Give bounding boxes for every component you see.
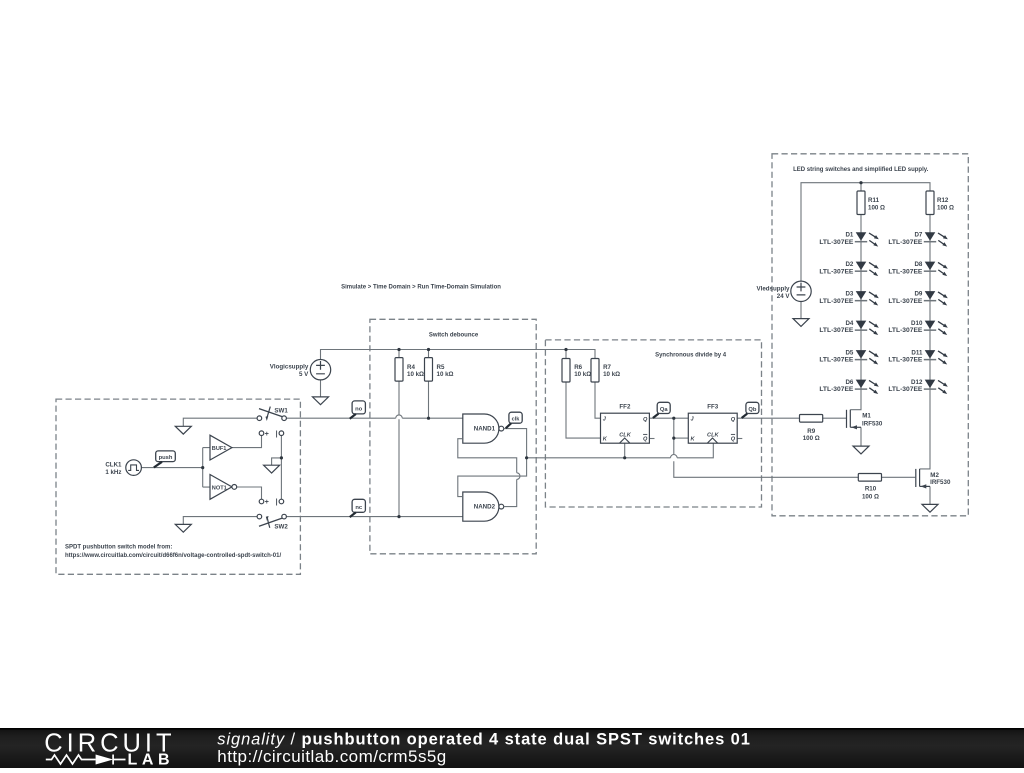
svg-text:Switch debounce: Switch debounce [429,333,479,339]
LED D9 [924,291,948,305]
LED D4 [855,321,879,335]
LED D6 [855,380,879,394]
node dot R4 nc net [397,515,400,518]
LED D5 [855,350,879,364]
wire FF3 Q output to R9 [737,417,799,419]
node dot R5 no net [427,417,430,420]
svg-text:Qa: Qa [660,407,669,413]
flag Qb [742,402,759,418]
wire top +5V rail [321,350,596,360]
node dot FF2 clock [623,456,626,459]
svg-text:LTL-307EE: LTL-307EE [888,298,923,305]
svg-text:10 kΩ: 10 kΩ [603,371,620,378]
svg-text:Synchronous divide by 4: Synchronous divide by 4 [655,353,727,359]
wire CLK1 to buffer inputs [141,448,210,488]
wire SW1 pole terminal rail down to SW2 pole terminal [280,436,282,500]
resistor R10 [858,474,881,482]
svg-text:D2: D2 [845,261,853,268]
wire Vledsupply to ground [800,302,802,319]
wire BUF1 output to SW1 plus terminal [232,436,262,448]
svg-text:no: no [355,406,363,412]
node dot R5 top rail [427,348,430,351]
svg-text:D12: D12 [911,379,923,386]
voltage source Vledsupply [791,281,811,301]
wire FF2 Q output to FF3 J input [649,417,688,419]
svg-text:D7: D7 [914,231,922,238]
SPDT pushbutton model dashed box [56,399,300,574]
switch SW1 control terminals [259,431,284,438]
svg-text:FF3: FF3 [707,404,719,411]
wire R4 bottom down to nc net with hop gap [398,381,400,516]
clock source CLK1 [126,460,142,476]
svg-text:http://circuitlab.com/crm5s5g: http://circuitlab.com/crm5s5g [217,747,446,766]
flip-flop FF2 [601,413,650,443]
wire SW2 left to ground [183,517,257,525]
LED D10 [924,321,948,335]
svg-text:D4: D4 [845,320,853,327]
ground SW2 left [175,524,191,532]
node dot control rail ground tap [280,456,283,459]
svg-text:D10: D10 [911,320,923,327]
wire FF3 K input stub [674,437,689,439]
LED D2 [855,262,879,276]
svg-text:SPDT pushbutton switch model f: SPDT pushbutton switch model from: [65,545,172,551]
switch debounce dashed box [370,319,536,554]
svg-text:5 V: 5 V [299,371,309,378]
LED D1 [855,232,879,246]
wire FF2 clock stub [624,443,626,458]
node dot R6 top rail [564,348,567,351]
ground below M1 [853,446,869,454]
wire LED box top rail [801,183,930,281]
switch SW1 [257,407,288,421]
svg-text:LTL-307EE: LTL-307EE [888,357,923,364]
LED D3 [855,291,879,305]
nand gate NAND1 [463,414,504,443]
svg-text:D5: D5 [845,349,853,356]
flag no [350,401,366,419]
wire NAND2 output up with hop to NAND1 lower input [458,439,520,507]
wire R5 bottom down to no net [428,381,430,418]
wire top rail R6 stub [565,350,567,359]
svg-text:CLK1: CLK1 [105,461,122,468]
resistor R4 [395,358,403,382]
svg-text:+: + [265,499,269,506]
wire R7 bottom to FF2 J input [595,382,601,418]
LED string dashed box [772,154,968,516]
wire M2 source to ground [929,486,931,504]
wire R9 to M1 gate [823,417,846,419]
switch SW2 control terminals [259,499,284,506]
svg-text:100 Ω: 100 Ω [862,493,879,500]
switch SW2 [257,514,288,530]
svg-text:FF2: FF2 [619,404,631,411]
svg-text:LTL-307EE: LTL-307EE [888,327,923,334]
flag Qa [653,402,670,418]
voltage source Vlogicsupply [310,360,330,380]
footer bar [0,728,1024,768]
flag nc [350,499,366,517]
wire control rail to center ground elbow [272,458,282,465]
svg-text:24 V: 24 V [777,293,791,300]
wire FF3 Qbar stub [737,438,742,440]
svg-text:clk: clk [512,417,521,423]
svg-text:Qb: Qb [748,407,757,413]
svg-text:R4: R4 [407,364,415,371]
svg-text:D1: D1 [845,231,853,238]
svg-text:M1: M1 [862,413,871,420]
node dot NAND1 output clk [525,456,528,459]
wire Vlogicsupply to ground [320,380,322,397]
svg-text:push: push [159,455,173,461]
svg-text:LTL-307EE: LTL-307EE [888,386,923,393]
wire clk node down and across to NAND2 upper input [458,458,527,497]
resistor R12 [926,191,934,215]
svg-text:LTL-307EE: LTL-307EE [888,239,923,246]
node dot CLK1 branch [201,466,204,469]
wire Qa node down to K input and M2 gate line [674,418,859,477]
resistor R7 [591,359,599,383]
svg-text:LTL-307EE: LTL-307EE [819,298,854,305]
svg-text:Vledsupply: Vledsupply [756,285,790,292]
ground SW1 left [175,426,191,434]
wire R6 bottom to FF2 K input [566,382,601,438]
svg-text:signality / pushbutton operate: signality / pushbutton operated 4 state … [217,730,751,748]
svg-text:100 Ω: 100 Ω [803,435,820,442]
ground below Vledsupply [793,319,809,327]
resistor R6 [562,359,570,383]
resistor R5 [425,358,433,382]
footer top edge line [0,728,1024,730]
svg-text:D8: D8 [914,261,922,268]
junction dots in divider [525,348,675,460]
svg-text:R6: R6 [574,364,582,371]
wire R5 top stub [428,350,430,358]
LED D7 [924,232,948,246]
flag push [154,451,176,468]
svg-text:D11: D11 [911,349,923,356]
svg-text:R11: R11 [868,197,880,204]
svg-text:D9: D9 [914,290,922,297]
svg-text:R5: R5 [437,364,445,371]
svg-text:nc: nc [355,505,363,511]
synchronous divider dashed box [545,340,761,507]
flip-flop FF3 [688,413,737,443]
svg-text:Simulate > Time Domain > Run T: Simulate > Time Domain > Run Time-Domain… [341,285,501,291]
svg-text:BUF1: BUF1 [212,446,227,452]
svg-text:NAND2: NAND2 [474,504,496,511]
svg-text:R9: R9 [807,428,815,435]
svg-text:LTL-307EE: LTL-307EE [819,327,854,334]
wire right LED string [920,215,930,469]
LED D12 [924,380,948,394]
flag clk [506,412,523,428]
wire M1 source to ground [860,427,862,446]
svg-text:SW2: SW2 [274,524,288,531]
wire R10 to M2 gate [882,476,916,478]
svg-text:Vlogicsupply: Vlogicsupply [270,364,309,371]
svg-text:|: | [276,431,278,438]
node dot Qa to FF3 K [672,437,675,440]
svg-text:|: | [276,499,278,506]
resistor R9 [800,415,823,423]
svg-text:R12: R12 [937,197,949,204]
junction dots [201,348,430,518]
svg-text:IRF530: IRF530 [862,421,883,428]
svg-text:D3: D3 [845,290,853,297]
svg-text:R7: R7 [603,364,611,371]
svg-text:LTL-307EE: LTL-307EE [819,268,854,275]
wire FF2 Qbar stub [649,438,654,440]
buffer BUF1 [210,435,232,460]
wire R11 top stub [860,183,862,191]
transistor M1 [847,410,862,430]
node dot R4 top rail [397,348,400,351]
logo diode [96,755,114,765]
wire SW1 left to ground [183,418,257,426]
nand gate NAND2 [463,492,504,521]
LED D8 [924,262,948,276]
svg-text:NAND1: NAND1 [474,426,496,433]
ground below Vlogicsupply [313,397,329,405]
wire NAND1 output to clk node [504,429,527,458]
svg-text:D6: D6 [845,379,853,386]
node dot Qa to FF3 J [672,417,675,420]
svg-text:10 kΩ: 10 kΩ [574,371,591,378]
svg-text:M2: M2 [930,472,939,479]
wire R4 top stub [398,350,400,358]
transistor M2 [916,469,930,489]
wire clk net NAND1 to FF clocks with hop over Qa line [527,443,714,458]
svg-text:SW1: SW1 [274,408,288,415]
svg-text:100 Ω: 100 Ω [868,205,885,212]
svg-text:LAB: LAB [128,752,175,769]
svg-text:+: + [265,431,269,438]
LED D11 [924,350,948,364]
ground below M2 [922,504,938,512]
inverter NOT1 [210,475,237,500]
svg-text:10 kΩ: 10 kΩ [407,371,424,378]
svg-text:LTL-307EE: LTL-307EE [819,357,854,364]
wire left LED string [850,215,861,410]
node dot LED rail [859,181,862,184]
svg-text:LTL-307EE: LTL-307EE [819,386,854,393]
wire NOT1 output to SW2 plus terminal [237,487,262,499]
svg-text:LED string switches and simpli: LED string switches and simplified LED s… [793,167,929,173]
svg-text:R10: R10 [865,485,877,492]
svg-text:NOT1: NOT1 [212,485,227,491]
wire no net SW1 to NAND1 input with hop over R4 [286,415,462,418]
logo resistor zigzag [46,755,96,764]
resistor R11 [857,191,865,215]
ground control rail center [264,465,280,473]
svg-text:IRF530: IRF530 [930,479,951,486]
svg-text:LTL-307EE: LTL-307EE [819,239,854,246]
svg-text:100 Ω: 100 Ω [937,205,954,212]
svg-text:https://www.circuitlab.com/cir: https://www.circuitlab.com/circuit/d66f6… [65,553,281,559]
svg-text:10 kΩ: 10 kΩ [437,371,454,378]
svg-text:1 kHz: 1 kHz [105,469,121,476]
wire nc net SW2 to NAND2 input [286,516,462,518]
svg-text:LTL-307EE: LTL-307EE [888,268,923,275]
